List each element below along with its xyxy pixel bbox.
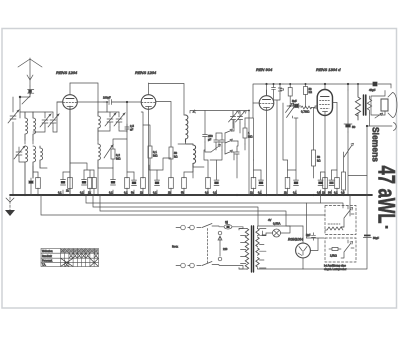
svg-text:50: 50 <box>352 125 356 129</box>
wire C21 top <box>149 158 171 170</box>
svg-text:30: 30 <box>328 191 331 195</box>
wire contacts rail <box>225 120 238 160</box>
wire L9 <box>186 144 204 178</box>
svg-text:RENS 1364 d: RENS 1364 d <box>316 67 341 72</box>
wire L8 top <box>178 115 193 144</box>
tube V4 <box>317 84 337 195</box>
capacitor C20 <box>133 172 135 195</box>
wire V1 right to C7 <box>77 101 104 103</box>
svg-text:Rundfunk: Rundfunk <box>42 256 53 258</box>
resistor R20 <box>287 160 289 195</box>
svg-text:0,1: 0,1 <box>213 191 217 195</box>
svg-text:5μF: 5μF <box>306 233 311 237</box>
wire speaker bottom <box>370 113 393 126</box>
switch S2a <box>202 224 219 228</box>
svg-text:RGN1064: RGN1064 <box>288 238 303 242</box>
switch S2b <box>202 262 219 266</box>
svg-text:100pF: 100pF <box>103 96 111 100</box>
svg-text:4V: 4V <box>268 218 272 222</box>
variable capacitor C31 <box>236 111 247 123</box>
tube V1 <box>63 83 78 195</box>
svg-text:nF: nF <box>130 127 134 131</box>
wire V2 plate top <box>149 84 185 116</box>
secondary taps <box>260 229 267 269</box>
svg-text:kΩ: kΩ <box>309 90 313 94</box>
wire C10 C11 <box>216 133 222 150</box>
wire C22 top <box>210 150 222 160</box>
capacitor C24 <box>295 170 297 195</box>
wire R5 <box>244 118 246 150</box>
potentiometer P5 in box <box>341 240 354 258</box>
capacitor C8 <box>125 124 129 132</box>
resistor R8 0.7M <box>301 106 318 109</box>
wire B plus rail <box>367 126 370 235</box>
svg-text:RENS 1264: RENS 1264 <box>56 70 78 75</box>
contact K3 <box>225 139 234 143</box>
wire input left rail <box>13 112 20 195</box>
wire C18 R13 <box>70 163 94 170</box>
coil L7 <box>98 144 100 168</box>
capacitor C27 50uF <box>364 235 371 237</box>
svg-text:kΩ: kΩ <box>317 158 321 162</box>
tap arrow L8 <box>193 110 197 113</box>
svg-text:220: 220 <box>223 247 228 251</box>
resistor R25 in box <box>329 248 341 251</box>
table row2 X marks <box>69 254 97 258</box>
svg-text:2k: 2k <box>66 189 69 193</box>
potentiometer P4 in box <box>341 206 354 227</box>
capacitor C18 <box>83 170 85 195</box>
svg-text:pF: pF <box>208 137 212 141</box>
coil L4 <box>33 146 36 178</box>
svg-text:MΩ: MΩ <box>116 156 120 160</box>
switch table <box>41 249 99 267</box>
svg-text:0,3: 0,3 <box>341 191 345 195</box>
pilot lamp LP <box>262 226 290 237</box>
primary taps <box>239 229 247 270</box>
svg-text:5nF: 5nF <box>292 99 297 103</box>
wire L1 L2 tops <box>20 112 33 144</box>
coil L5 <box>40 146 47 168</box>
rectifier V5 RGN1064 <box>296 226 311 269</box>
capacitor C21 <box>156 170 158 195</box>
resistor R4 <box>170 159 172 178</box>
switch S1 <box>22 92 31 104</box>
table row labels <box>42 250 53 267</box>
svg-text:50μF: 50μF <box>373 236 379 240</box>
capacitor C19 <box>112 168 114 195</box>
wire L6 L7 <box>98 140 113 168</box>
junction grid V2 <box>106 101 108 103</box>
tube V2 <box>141 83 156 195</box>
svg-text:2k: 2k <box>284 191 287 195</box>
speaker LS <box>371 91 397 119</box>
resistor R7 50k <box>304 87 308 95</box>
table header marks <box>61 249 98 252</box>
resistor R18 <box>207 160 209 195</box>
svg-text:Siemens: Siemens <box>370 127 381 162</box>
wire R17 top <box>184 167 193 172</box>
wire P2 bottom <box>292 116 294 118</box>
wire rectifier feed drop <box>306 203 308 238</box>
svg-text:kΩ: kΩ <box>174 154 178 158</box>
capacitor C15 45nF <box>373 82 378 87</box>
wire rectifier output <box>307 238 325 251</box>
resistor R1 <box>37 172 39 195</box>
contact K4 <box>225 150 234 154</box>
capacitor C12 <box>235 149 239 158</box>
wire antenna to input <box>13 86 30 112</box>
fuse Si <box>219 225 243 229</box>
wire C9 <box>204 142 206 150</box>
wire subrail C <box>100 195 290 226</box>
contact K2 <box>225 129 234 133</box>
resistor R15 <box>142 178 144 195</box>
svg-text:0,5: 0,5 <box>317 191 321 195</box>
potentiometer P2b <box>286 103 294 112</box>
resistor R5 <box>244 124 246 144</box>
resistor R21 <box>324 172 326 195</box>
variable capacitor C30 <box>229 111 240 123</box>
choke R24 in box <box>325 227 344 230</box>
capacitor C5 <box>29 178 34 195</box>
IF coil L8 <box>186 115 188 142</box>
svg-text:MΩ: MΩ <box>153 153 157 157</box>
svg-text:0,1: 0,1 <box>109 191 113 195</box>
variable capacitor C6 <box>105 112 116 127</box>
capacitor C26 5uF <box>312 233 316 241</box>
junction C8 grid <box>126 101 128 103</box>
svg-text:1k: 1k <box>88 191 91 195</box>
wire bus to pot drop <box>349 195 351 216</box>
resistor R10 50k <box>313 108 315 178</box>
wire C12 <box>237 141 238 178</box>
capacitor C17 <box>62 172 64 195</box>
capacitor C22 <box>216 160 218 195</box>
IF coil L9 <box>193 145 196 167</box>
wire subrail B <box>93 195 258 226</box>
svg-text:Wellenber.: Wellenber. <box>42 250 53 253</box>
wire K1 <box>205 140 219 152</box>
svg-text:0,1: 0,1 <box>258 191 262 195</box>
trimmer capacitor C1 <box>8 110 19 123</box>
svg-text:0,1: 0,1 <box>153 191 157 195</box>
wire right drop from AC <box>390 84 392 88</box>
resistor R17 <box>183 172 185 195</box>
capacitor C13 <box>272 84 276 100</box>
capacitor C16 <box>347 90 349 124</box>
svg-text:RENS 1264: RENS 1264 <box>135 70 157 75</box>
switch contact K1 <box>211 144 220 152</box>
voltage selector VS <box>218 231 222 261</box>
svg-text:MΩ: MΩ <box>248 134 252 138</box>
wire mains to transformer <box>219 227 243 269</box>
capacitor C14 coupling <box>287 105 294 107</box>
resistor R24b <box>343 152 345 195</box>
resistor R14 <box>126 132 128 195</box>
output transformer T1 core <box>364 95 366 115</box>
resistor R16 <box>170 188 172 195</box>
wire bandfilter top <box>98 112 127 131</box>
capacitor C10 <box>214 136 218 146</box>
grid leak left <box>57 101 63 103</box>
svg-text:2,5kΩ: 2,5kΩ <box>330 254 337 258</box>
secondary leads <box>258 226 304 269</box>
svg-text:45μF: 45μF <box>369 88 376 92</box>
svg-text:Fernempf.: Fernempf. <box>42 259 53 262</box>
svg-text:0,2: 0,2 <box>334 191 338 195</box>
wire subrail D <box>41 195 325 215</box>
transformer T2 core <box>252 226 254 272</box>
wire V2 right <box>156 102 171 148</box>
wire V2 left drop <box>141 112 143 178</box>
wire R10 top <box>314 107 318 109</box>
tiny value labels along bus <box>80 191 345 195</box>
junction B plus <box>366 125 368 127</box>
field coil R11 <box>355 84 360 120</box>
wire mid drop <box>98 139 127 195</box>
potentiometer P3 <box>344 132 367 195</box>
svg-text:0,2: 0,2 <box>124 191 128 195</box>
resistor R19 <box>253 160 255 195</box>
transformer T2 primary <box>245 229 248 270</box>
resistor R13 <box>89 170 91 195</box>
capacitor C11 <box>220 136 224 146</box>
junction top line <box>324 83 326 85</box>
connector lug right <box>394 123 397 131</box>
trimmer capacitor C2 <box>14 146 25 162</box>
switch gang link <box>207 229 209 264</box>
wire to V1 grid <box>57 102 62 132</box>
wire C3 C4 to coils <box>33 112 57 132</box>
coil L6 <box>98 112 100 140</box>
dashed box 1 <box>325 206 356 235</box>
resistor R6 <box>288 88 292 97</box>
resistor R13b <box>93 170 95 195</box>
resistor R3 <box>143 125 150 195</box>
ground bus <box>10 194 372 196</box>
ground <box>5 197 15 216</box>
wire cluster tops right <box>321 170 338 172</box>
antenna <box>18 58 42 86</box>
svg-text:1k: 1k <box>250 191 253 195</box>
coil L2 <box>33 112 36 140</box>
svg-text:47 aWL: 47 aWL <box>373 166 400 224</box>
AC supply top line <box>253 84 391 103</box>
dashed box 2 <box>325 238 356 262</box>
svg-text:T.A.: T.A. <box>42 264 46 267</box>
wire R20 top <box>283 103 288 160</box>
svg-text:0,1: 0,1 <box>80 191 84 195</box>
mains plug P <box>176 225 201 268</box>
wire R18 top <box>204 150 208 160</box>
svg-text:Si: Si <box>225 221 228 225</box>
capacitor C23 <box>260 170 262 195</box>
capacitor C32 <box>331 170 333 195</box>
junction antenna node <box>19 96 21 98</box>
resistor R2 <box>112 144 114 168</box>
wire heater drop <box>320 195 322 203</box>
coil L3 <box>25 146 28 195</box>
resistor R12 <box>69 172 71 195</box>
wire oscillator top <box>190 111 249 196</box>
capacitor C25 <box>320 172 322 195</box>
wire C20 top <box>127 171 134 173</box>
transformer secondary L10 <box>367 96 371 113</box>
bus junction dots <box>12 194 349 196</box>
potentiometer P1 <box>104 145 113 158</box>
wire right lower rail <box>303 238 367 269</box>
svg-text:0,1: 0,1 <box>58 191 62 195</box>
wire subrail A <box>86 195 343 208</box>
wire R1 top <box>33 166 38 178</box>
svg-text:Netz: Netz <box>172 245 179 249</box>
junction V3 plate <box>265 83 267 85</box>
wire C23 top <box>254 169 262 171</box>
wire C8 to V2 grid <box>127 102 141 132</box>
wire C24 top <box>288 118 299 170</box>
junction grid node <box>289 105 291 107</box>
tube V3 <box>259 90 274 195</box>
svg-text:0,55A: 0,55A <box>273 222 280 226</box>
table row3-4 X marks <box>61 259 98 267</box>
resistor R23 <box>336 103 338 196</box>
capacitor C13b <box>278 84 283 94</box>
svg-text:REN 904: REN 904 <box>256 67 273 72</box>
variable capacitor C3 <box>40 112 51 128</box>
capacitor C100 100pF <box>109 100 112 105</box>
wire V1 plate top <box>70 83 98 112</box>
potentiometer P2 <box>287 104 297 117</box>
svg-text:0,7MΩ: 0,7MΩ <box>301 110 309 114</box>
wire V3 plate <box>266 84 268 96</box>
junction osc <box>248 110 250 112</box>
wire C17 R12 top <box>63 106 70 172</box>
variable capacitor C4 <box>48 112 59 128</box>
wire cluster join <box>274 94 281 195</box>
svg-text:0,1: 0,1 <box>293 191 297 195</box>
transformer T2 secondary <box>256 229 259 268</box>
wire top drops <box>283 84 348 90</box>
antenna capacitor CA <box>28 90 31 93</box>
wire R19 top <box>253 118 255 160</box>
svg-text:0,3: 0,3 <box>205 191 209 195</box>
variable capacitor C7 <box>114 112 125 127</box>
wire V3 grid left <box>245 103 259 118</box>
coil L1 <box>25 112 28 140</box>
capacitor C9 <box>203 111 208 143</box>
